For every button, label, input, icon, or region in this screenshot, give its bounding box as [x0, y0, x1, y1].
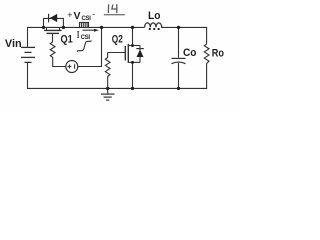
svg-text:CSI: CSI	[81, 35, 91, 41]
svg-text:Q2: Q2	[112, 34, 123, 46]
svg-text:-: -	[92, 9, 95, 19]
svg-text:V: V	[74, 10, 81, 22]
svg-text:Co: Co	[183, 47, 197, 59]
svg-text:Ro: Ro	[212, 47, 224, 59]
svg-text:Q1: Q1	[61, 33, 73, 45]
svg-text:+: +	[67, 10, 72, 20]
svg-text:Vin: Vin	[5, 38, 22, 50]
svg-text:CSI: CSI	[82, 16, 92, 22]
svg-text:Lo: Lo	[148, 10, 161, 22]
